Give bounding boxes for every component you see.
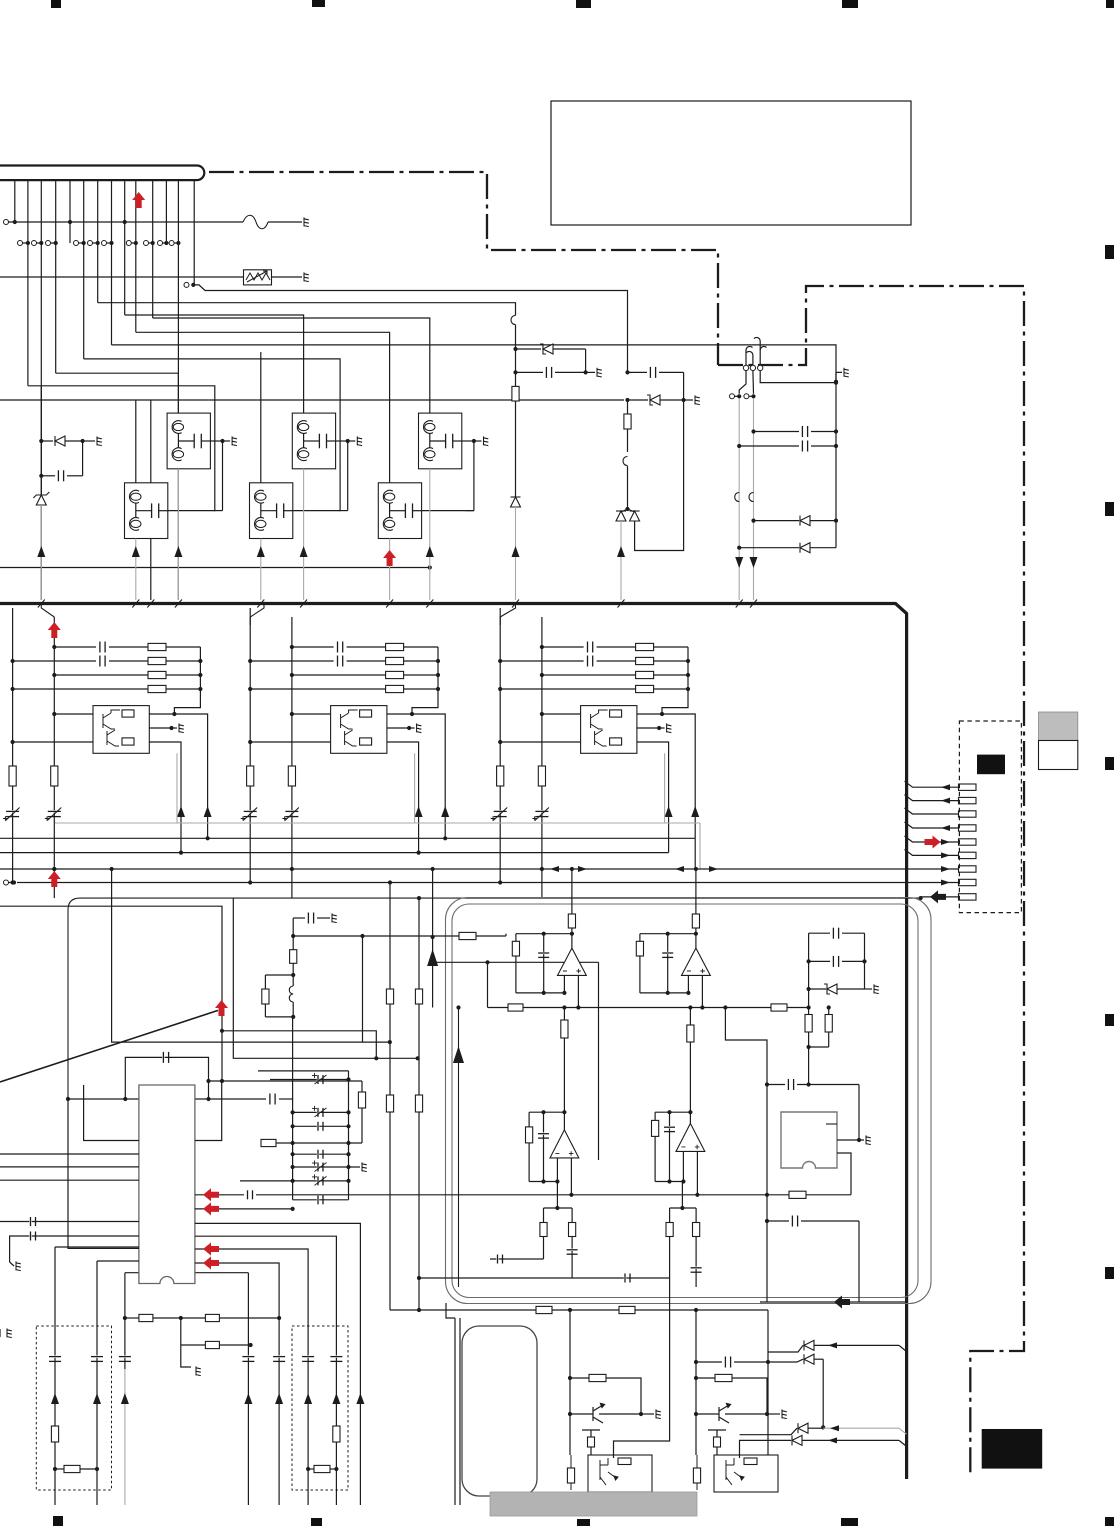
right cluster diode row 2	[737, 546, 741, 550]
right cluster diode row 1	[751, 519, 755, 523]
ch1 wire A	[12, 608, 14, 883]
PB1 base resistor	[570, 1377, 589, 1379]
cluster bottom cap	[293, 1199, 349, 1201]
bias network RL	[291, 934, 295, 938]
wire hop on w7 drop	[511, 316, 516, 325]
legend gray swatch	[1039, 712, 1078, 741]
DL1 bottom resistor	[53, 1467, 57, 1471]
op-amp U1A plus input	[577, 975, 579, 1007]
ch2 photocoupler IC	[331, 706, 387, 754]
cluster cap row 1154	[291, 1152, 295, 1156]
pin field dashed box	[959, 721, 1021, 913]
DL1 resistor	[51, 1426, 58, 1442]
ch2 ecap B	[285, 810, 298, 812]
red arrow power-in up	[132, 192, 145, 208]
cap to gnd	[293, 917, 305, 919]
ground lead B1 upper	[210, 440, 222, 442]
PB2 line to ground	[696, 1413, 713, 1415]
zener diode ZD1	[36, 495, 46, 505]
U2B output divider	[681, 1182, 683, 1209]
capacitor C3	[41, 475, 55, 477]
right network cap 2	[807, 959, 811, 963]
U2A output divider	[556, 1182, 558, 1209]
op-amp U2A fb resistor	[528, 1112, 530, 1127]
ch1 resistor RB	[51, 766, 58, 786]
thermistor TH1 net	[0, 276, 244, 278]
jack side loop	[837, 1153, 851, 1195]
audio section inner rounded box	[452, 904, 918, 1298]
red arrow ch1 bus	[52, 867, 56, 871]
op-amp U2B plus input	[696, 1151, 698, 1194]
ground riser B1	[222, 441, 224, 511]
loop line y906	[0, 906, 222, 1081]
drop to D row	[767, 1310, 769, 1455]
diode D1 bottom	[511, 497, 521, 507]
right network ground	[874, 984, 879, 993]
op-amp U2A top rail	[562, 1110, 566, 1114]
wire run w14 to diode cluster D2	[184, 282, 189, 287]
ch3 arrow up bias A	[691, 806, 699, 817]
cluster cap row 1079	[270, 1079, 349, 1081]
wire below B4 lower	[135, 539, 137, 601]
op-amp U2A bottom rail	[529, 1181, 557, 1183]
PB2 emitter resistor	[714, 1437, 721, 1447]
DL1 arrows	[51, 1393, 59, 1404]
cluster resistor	[361, 1081, 363, 1092]
wire 250 down	[247, 1273, 249, 1505]
cap C-jack 1	[767, 1084, 785, 1086]
cluster D1 cap	[513, 347, 517, 351]
op-amp U2B top rail	[688, 1110, 692, 1114]
red arrow pointer	[215, 1000, 228, 1016]
cluster top line	[258, 1070, 349, 1072]
jack right riser	[858, 1085, 860, 1141]
registration mark bottom 2	[311, 1518, 322, 1526]
right cluster cap row 1	[751, 429, 755, 433]
ch2 wire A	[249, 608, 251, 883]
diode D3 node	[40, 386, 42, 495]
thermistor TH1	[244, 270, 272, 285]
registration mark right 1	[1105, 245, 1114, 259]
resistor R-bias	[290, 950, 297, 964]
op-amp U1A fb rail top	[516, 933, 572, 935]
pointer diagonal line	[0, 1010, 218, 1082]
op-amp U1B fb resistor	[639, 934, 641, 942]
resistor R-D1	[512, 386, 519, 401]
PB2 output box resistor	[744, 1458, 757, 1465]
lamp box B3 upper	[419, 413, 462, 469]
row y1345	[180, 1318, 182, 1345]
note box (blank)	[551, 101, 911, 225]
registration mark right 6	[1105, 1517, 1114, 1526]
arrow down SW2 wire	[750, 557, 758, 568]
op-amp U2B bottom rail	[655, 1181, 683, 1183]
diode D3	[41, 440, 53, 442]
op-amp U1A fb resistor	[515, 934, 517, 942]
left edge ground	[7, 1328, 12, 1337]
op-amp U1B fb rail top	[640, 933, 696, 935]
shared plus net line	[256, 1194, 851, 1196]
op-amp U2A minus input	[556, 1158, 558, 1182]
ch2 arrow up bias A	[441, 806, 449, 817]
line y1099	[68, 1098, 266, 1100]
jog ch2 entry	[250, 604, 264, 626]
arrows on bottom wires	[121, 1393, 129, 1404]
ground bottom left	[16, 1261, 21, 1270]
ch1 arrow up bias B	[177, 806, 185, 817]
PB2 base resistor	[696, 1377, 715, 1379]
ch3 coupler pin leads	[540, 712, 544, 716]
red arrow ch1 top	[48, 622, 61, 638]
bus line y882	[17, 882, 959, 884]
loop return D2	[635, 400, 684, 551]
main IC body	[139, 1085, 195, 1284]
drop wire x233	[233, 898, 417, 1058]
ch2 row collector	[412, 647, 438, 714]
black arrow up feed 2	[458, 1008, 460, 1288]
cluster D2 zener	[625, 398, 629, 402]
cluster cap row 1112	[291, 1110, 295, 1114]
PB1 line to ground	[570, 1413, 587, 1415]
op-amp U1A triangle	[558, 948, 587, 975]
cap on U2B leg	[691, 1267, 702, 1269]
wire SW2 into block	[753, 398, 755, 600]
diode DR4	[762, 1439, 791, 1441]
ch2 row4 resistor	[248, 687, 252, 691]
bus line y852	[0, 852, 669, 854]
lamp box B1 upper	[167, 413, 210, 469]
resistor on shared net	[789, 1191, 806, 1198]
ch3 coupler resistor 1	[610, 710, 622, 717]
cap C-jack 2	[767, 1220, 789, 1222]
long service wire y=567	[0, 567, 430, 569]
bus line y898 with arc to IC loop	[68, 898, 921, 1099]
right network verticals	[808, 933, 810, 1007]
ch3 row2 resistor	[636, 657, 654, 664]
DL2 bottom resistor	[306, 1467, 310, 1471]
ch2 row3 resistor	[290, 673, 294, 677]
red arrow entry w B3 lower	[383, 550, 396, 566]
ch1 coupler resistor 2	[122, 738, 134, 745]
wire run w7 to diode cluster D1	[98, 303, 516, 316]
right cluster cap row 2	[737, 444, 741, 448]
ground riser B2	[347, 441, 349, 511]
left rail riser	[487, 962, 489, 1007]
ch2 coupler gnd lead	[387, 727, 409, 729]
connector pin P7	[959, 866, 977, 872]
divider drop	[808, 1047, 810, 1085]
ch3 ecap A	[494, 810, 507, 812]
service code black box	[982, 1429, 1042, 1469]
pin arrows	[941, 784, 950, 790]
registration mark top 4	[842, 0, 858, 8]
registration mark top 3	[576, 0, 591, 8]
ch3 coupler gnd lead	[637, 727, 659, 729]
wire below B2 upper	[303, 469, 305, 600]
B3 lower cap lead	[422, 510, 474, 512]
PB1 output box	[588, 1455, 652, 1492]
ch1 row1 cap	[52, 645, 56, 649]
dashed box DL2	[292, 1326, 348, 1490]
PB1 shunt resistor	[567, 1468, 574, 1483]
diode DR3	[740, 1428, 797, 1435]
drop wire x111	[112, 869, 390, 1042]
op-amp U2A plus input	[570, 1158, 572, 1195]
op-amp U2B triangle	[676, 1123, 705, 1151]
wire left of driver 2	[459, 1318, 461, 1505]
right cluster ground	[836, 372, 842, 381]
wire run w11 to lamp box B3 upper	[153, 318, 430, 413]
ch3 coupler resistor 2	[610, 738, 622, 745]
registration mark bottom 3	[577, 1519, 590, 1526]
ch2 wire B	[291, 617, 293, 898]
ground lead B3 upper	[462, 440, 474, 442]
wire into block	[515, 507, 517, 600]
cluster cap row 1167	[291, 1165, 295, 1169]
bus direction arrows	[550, 866, 559, 872]
ch3 row4 resistor	[498, 687, 502, 691]
lamp box B5 lower	[250, 483, 293, 539]
switch contact SW1	[743, 365, 748, 370]
connector pin P6	[959, 852, 977, 858]
divider resistor pair	[807, 1005, 811, 1009]
ch1 row3 resistor	[52, 673, 56, 677]
column wire 390	[389, 883, 391, 1311]
line y1030	[222, 1031, 376, 1059]
registration mark bottom 1	[53, 1516, 63, 1526]
hidden line y962	[433, 961, 599, 963]
cap to jack line	[725, 1008, 767, 1303]
pin P6 lead	[905, 849, 959, 855]
ch1 gray sense wire	[176, 753, 178, 823]
hidden line under IC	[125, 1272, 248, 1274]
ch3 row2 cap	[498, 659, 502, 663]
ch1 row collector	[174, 647, 200, 714]
joint pins under switches	[730, 394, 735, 399]
connector pin P9	[959, 894, 977, 900]
IC left cap row 1	[0, 1221, 139, 1223]
pin P4 lead	[905, 822, 959, 828]
lamp box B6 lower	[378, 483, 421, 539]
wire run w10 to lamp box B3 lower	[136, 332, 390, 483]
right network diode	[807, 987, 811, 991]
black arrow up feed 1	[432, 869, 434, 951]
ch3 row collector	[662, 647, 688, 714]
jog ch3 entry	[500, 604, 515, 626]
wire into main block w3	[40, 505, 42, 600]
lamp box B4 lower	[125, 483, 168, 539]
ground riser B3	[473, 441, 475, 511]
arrow entry w3	[37, 546, 45, 557]
ch1 row4 resistor	[11, 687, 15, 691]
PB1 output box resistor	[618, 1458, 631, 1465]
ch1 coupler out lower	[149, 742, 181, 853]
ch2 resistor RB	[288, 766, 295, 786]
wire below B3 upper	[429, 469, 431, 600]
gray bus y823	[55, 822, 700, 824]
net row with fuse to ground	[6, 221, 243, 223]
cluster cap row 1181	[291, 1179, 295, 1183]
row y1310	[389, 1309, 391, 1311]
ch2 arrow up bias B	[415, 806, 423, 817]
ch3 row3 resistor	[540, 673, 544, 677]
ch3 photocoupler IC	[581, 706, 637, 754]
registration mark right 5	[1105, 1267, 1114, 1279]
red arrow IC row 2	[203, 1202, 219, 1215]
connector pin P3	[959, 811, 977, 817]
ch3 resistor RB	[538, 766, 545, 786]
PB2 main wire	[695, 1310, 697, 1455]
pin P3 lead	[905, 808, 959, 814]
arrow entry D1	[512, 546, 520, 557]
ch2 row1 cap	[290, 645, 294, 649]
red arrow IC row 1	[203, 1188, 219, 1201]
PB1 transistor Q	[582, 1404, 605, 1438]
ch2 row2 resistor	[386, 657, 404, 664]
ground stub	[181, 1345, 191, 1367]
wire below B1 upper	[177, 469, 179, 600]
cluster D2 cap	[625, 370, 629, 374]
connector joint pins row	[18, 241, 23, 246]
IC right loop	[195, 1081, 222, 1141]
U2B output chain	[689, 1008, 691, 1124]
wire SW1 into block	[738, 398, 740, 600]
ecap cluster rails	[292, 1017, 294, 1200]
op-amp U2A triangle	[550, 1130, 579, 1158]
registration mark right 3	[1105, 757, 1114, 770]
pin P1 lead	[905, 781, 959, 787]
op-amp U2B fb resistor	[654, 1112, 656, 1120]
ch2 row1 resistor	[386, 643, 404, 650]
ch1 row2 resistor	[148, 657, 166, 664]
pin P5 lead	[905, 836, 959, 842]
row y1318	[125, 1317, 139, 1319]
RL pair	[291, 973, 295, 977]
registration mark top 2	[312, 0, 325, 7]
switch contact SW2	[750, 365, 755, 370]
PB1 main wire	[569, 1310, 571, 1455]
wire below B6 lower	[389, 539, 391, 601]
connector label block	[977, 755, 1005, 775]
ch2 coupler pin leads	[290, 712, 294, 716]
ch1 arrow up bias A	[204, 806, 212, 817]
ch3 wire B	[541, 617, 543, 898]
audio section outer rounded box	[446, 898, 932, 1304]
diode D2a	[621, 509, 628, 512]
wire below B5 lower	[260, 539, 262, 601]
cluster row 1143	[291, 1141, 295, 1145]
ch1 coupler gnd lead	[149, 727, 171, 729]
ch3 coupler out upper	[637, 714, 695, 838]
wire hop D2	[623, 457, 628, 466]
black arrow from pin P9	[930, 890, 946, 903]
ch3 wire A	[499, 608, 501, 883]
arrow entries at lamp wires	[132, 546, 140, 557]
ch2 gray sense wire	[414, 753, 416, 823]
connector pin P2	[959, 797, 977, 803]
connector pin P8	[959, 879, 977, 885]
connector pin P1	[959, 784, 977, 790]
DL2 resistor	[333, 1426, 340, 1442]
ch1 resistor RA	[9, 766, 16, 786]
op-amp U2A fb cap	[543, 1112, 545, 1181]
op-amp U1A fb rail bottom	[516, 992, 565, 994]
mid rail resistor 2	[771, 1004, 787, 1011]
wire run w8 to right RC cluster	[112, 345, 837, 382]
ch2 resistor RA	[247, 766, 254, 786]
diode DR2	[768, 1359, 803, 1362]
ground lead B2 upper	[336, 440, 348, 442]
op-amp U1A feed resistor	[571, 869, 573, 914]
chassis ground for TH1	[304, 272, 309, 281]
jack ground lead	[837, 1139, 864, 1141]
op-amp U2B minus input	[682, 1151, 684, 1181]
wire SW1 down to joint	[739, 371, 746, 394]
line y1081	[209, 1080, 363, 1082]
ch3 row1 cap	[540, 645, 544, 649]
op-amp U1B triangle	[682, 948, 711, 975]
red arrow IC row 4	[203, 1257, 219, 1270]
ch1 ecap A	[6, 810, 19, 812]
bus line y869	[0, 868, 959, 870]
tall driver IC box	[462, 1326, 537, 1496]
red arrow to pin P5	[925, 836, 941, 849]
connector CN bar	[0, 166, 204, 181]
row resistors	[536, 1306, 552, 1313]
IC left rows	[0, 1153, 139, 1155]
PB2 transistor Q	[708, 1404, 731, 1438]
line y1278 with cap	[419, 1277, 670, 1279]
mid rail	[488, 1007, 809, 1009]
wire run w4 to lamp box B1 upper feed	[56, 373, 179, 413]
cap loop above IC	[125, 1057, 208, 1099]
ch1 coupler pin leads	[52, 712, 56, 716]
dashed box DL1	[36, 1326, 111, 1490]
line y1259 with cap	[490, 1258, 544, 1260]
registration mark top 1	[51, 0, 61, 8]
chassis ground D1	[597, 368, 602, 377]
headphone jack J1	[781, 1112, 837, 1168]
connector pin P4	[959, 825, 977, 831]
output line with arrow	[760, 1301, 907, 1303]
ch2 coupler resistor 1	[360, 710, 372, 717]
wire SW3 to right cluster	[760, 371, 836, 383]
arrow down SW1 wire	[735, 557, 743, 568]
wire run to lamp box B2 lower	[260, 352, 262, 483]
IC left cap row 2	[10, 1236, 139, 1262]
ch1 wire B	[53, 617, 55, 898]
ch1 row1 resistor	[148, 643, 166, 650]
connector pin wires from CN	[14, 180, 16, 222]
registration mark top 5	[1106, 0, 1114, 8]
cluster feed resistor	[261, 1139, 276, 1146]
bus line y838	[0, 837, 695, 839]
ch2 coupler resistor 2	[360, 738, 372, 745]
chassis ground D2	[695, 395, 700, 404]
ch3 coupler out lower	[637, 742, 669, 853]
diode D2b	[628, 509, 635, 512]
U2A output chain	[563, 1008, 565, 1130]
column wire 419	[418, 898, 420, 1310]
PB2 output box	[714, 1455, 778, 1492]
ch3 resistor RA	[497, 766, 504, 786]
wire run w6 riser to B2 lower cap	[84, 359, 340, 511]
op-amp U1B fb rail bottom	[640, 992, 689, 994]
op-amp U1B minus input	[687, 975, 689, 993]
shield boundary dash-dot upper	[209, 172, 1024, 1477]
caps on bottom wires	[119, 1355, 131, 1357]
wire left of driver	[454, 1318, 456, 1505]
